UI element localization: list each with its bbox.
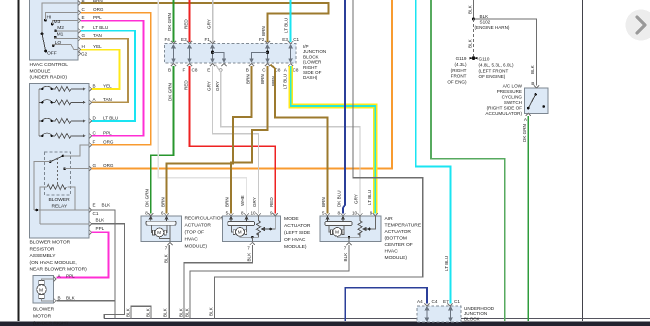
wire WHE from top to mode actuator pin 8: [158, 0, 246, 214]
svg-text:PPL: PPL: [93, 15, 102, 20]
HVAC pin C connector: [78, 10, 81, 15]
air temp bottom links: [337, 235, 349, 238]
blower motor box: [33, 276, 53, 304]
resistor row A with thermal limiter: [39, 100, 86, 105]
mode motor circle: [236, 228, 245, 237]
mode wiper node: [269, 228, 272, 231]
air temp position sensor resistor: [358, 221, 362, 235]
svg-text:OF HVAC: OF HVAC: [284, 237, 306, 243]
air temp wiper arm: [363, 228, 369, 231]
svg-text:MODULE): MODULE): [385, 255, 408, 261]
svg-text:E: E: [207, 68, 210, 73]
wire BLK relay to ground: [92, 224, 125, 319]
underhood junction block box: [417, 306, 461, 322]
HVAC pin G2 connector: [78, 51, 81, 56]
svg-text:BLK: BLK: [102, 203, 112, 208]
wire BLK mode to ground: [184, 245, 252, 318]
wire DK GRN JB B to recirculation actuator: [151, 66, 174, 214]
svg-text:BLK: BLK: [146, 307, 151, 317]
svg-text:(TOP OF: (TOP OF: [185, 230, 205, 236]
wire DK BLU compressor run: [345, 288, 427, 321]
svg-text:BRN: BRN: [160, 197, 165, 207]
svg-text:DASH): DASH): [303, 75, 318, 80]
wire GRY JB D to air temp actuator pin 10: [216, 65, 361, 214]
svg-text:(ON HVAC MODULE,: (ON HVAC MODULE,: [30, 260, 77, 266]
svg-text:TEMPERATURE: TEMPERATURE: [385, 223, 422, 229]
internal bus E3/C1-A: [289, 45, 292, 62]
recirc pin 8 internal arrow: [149, 216, 152, 221]
svg-text:7: 7: [247, 246, 250, 251]
mode sensor feed line: [258, 216, 260, 221]
switch contact top node: [534, 93, 537, 96]
wire ORG G long run to top: [92, 0, 393, 169]
svg-text:TAN: TAN: [93, 33, 102, 38]
svg-text:E: E: [93, 203, 96, 208]
blower motor resistor assembly box: [30, 83, 90, 238]
node on E line: [36, 209, 39, 212]
pin E bottom connector: [210, 64, 215, 67]
relay switch pivot: [49, 160, 52, 163]
internal bus F2-C: [266, 45, 269, 62]
svg-text:LT BLU: LT BLU: [93, 25, 108, 30]
air temp sensor feed line: [359, 216, 361, 221]
I/P junction block box: [165, 44, 297, 63]
svg-text:LT BLU: LT BLU: [284, 18, 289, 33]
air temp pin 8 internal arrow: [342, 216, 345, 222]
svg-text:DK BLU: DK BLU: [337, 190, 342, 207]
svg-text:B: B: [531, 81, 534, 86]
svg-text:MODULE: MODULE: [30, 68, 52, 74]
svg-text:6: 6: [161, 211, 164, 216]
svg-text:8: 8: [338, 211, 341, 216]
switch pin A connector: [526, 113, 531, 116]
mode pin 5 internal arrow: [230, 216, 233, 222]
pin D bottom connector: [221, 64, 226, 67]
svg-text:BRN: BRN: [260, 74, 265, 84]
motor pin A connector: [53, 276, 56, 281]
wire DK BLU from top to air temp actuator pin 8: [343, 0, 345, 214]
svg-text:C8: C8: [293, 68, 299, 73]
mode motor right brush: [245, 230, 247, 235]
air temp connector bar: [325, 222, 352, 226]
recirc pin 6 internal arrow: [165, 216, 168, 221]
svg-text:PPL: PPL: [66, 274, 75, 279]
underhood pin E7 connector: [447, 303, 452, 306]
recirc motor leads: [151, 225, 154, 232]
mode pin 7 lead: [251, 237, 253, 241]
svg-text:C8: C8: [192, 68, 198, 73]
M3 contact node and wire: [51, 23, 54, 26]
svg-text:MODULE): MODULE): [185, 244, 208, 250]
svg-text:BLK: BLK: [96, 218, 106, 223]
OFF contact node: [44, 50, 47, 53]
resistor row B with thermal limiter: [39, 86, 86, 91]
node on F2 bus: [266, 51, 269, 54]
air temp motor leads: [329, 226, 330, 232]
next-page circle button: [626, 10, 650, 41]
svg-text:DK GRN: DK GRN: [144, 189, 149, 207]
mode motor left brush: [233, 230, 235, 235]
svg-text:ORG: ORG: [103, 139, 114, 144]
svg-text:C1: C1: [293, 37, 299, 42]
resistor pin BLK connector: [89, 221, 92, 226]
HVAC control module box: [30, 0, 79, 60]
splice S102 node: [472, 18, 475, 21]
svg-text:H: H: [82, 44, 85, 49]
A/C low pressure cycling switch box: [525, 88, 549, 113]
HVAC pin B connector: [78, 0, 81, 5]
mode pin 9 internal lead: [271, 216, 276, 229]
svg-text:DK GRN: DK GRN: [167, 83, 172, 101]
resistor chain left bus: [38, 89, 40, 136]
motor lower brush: [39, 294, 45, 298]
resistor pin G connector: [89, 166, 92, 171]
svg-text:AIR: AIR: [385, 216, 394, 222]
svg-text:BRN: BRN: [245, 74, 250, 84]
svg-text:(LEFT FRONT: (LEFT FRONT: [479, 68, 509, 73]
wire DK GRN pressure switch to bottom: [527, 116, 529, 321]
ground bridge wire: [131, 306, 151, 319]
svg-text:BRN: BRN: [261, 26, 266, 36]
wire LT BLU feed from top: [290, 0, 292, 42]
svg-text:ACCUMULATOR): ACCUMULATOR): [485, 111, 522, 116]
relay coil: [47, 185, 66, 190]
motor pin B connector: [53, 298, 56, 303]
svg-text:HVAC: HVAC: [185, 237, 199, 243]
svg-text:E: E: [82, 15, 85, 20]
svg-text:5: 5: [322, 211, 325, 216]
HVAC pin F connector: [78, 28, 81, 33]
recirc motor left brush: [153, 230, 155, 235]
svg-text:10: 10: [251, 211, 257, 216]
mode pin 10 connector: [256, 213, 261, 216]
M1 contact node and wire: [54, 36, 57, 39]
svg-text:(UNDER RADIO): (UNDER RADIO): [30, 75, 68, 81]
wire LT GRN from top to bottom: [431, 0, 505, 321]
svg-text:MOTOR: MOTOR: [33, 314, 52, 320]
pin A/C8 bottom connector: [288, 64, 293, 67]
svg-text:BLK: BLK: [467, 38, 472, 48]
M2 contact node and wire: [54, 29, 57, 32]
svg-text:B: B: [246, 68, 249, 73]
svg-text:RED: RED: [183, 80, 188, 90]
pin E3/C1 top connector: [288, 41, 293, 44]
recirc connector bar: [146, 221, 176, 225]
svg-text:10: 10: [352, 211, 358, 216]
svg-text:7: 7: [344, 246, 347, 251]
svg-text:(LEFT SIDE: (LEFT SIDE: [284, 230, 311, 236]
svg-text:ORG: ORG: [93, 7, 104, 12]
svg-text:PPL: PPL: [96, 226, 105, 231]
svg-text:RESISTOR: RESISTOR: [30, 246, 55, 252]
svg-text:LT BLU: LT BLU: [444, 256, 449, 271]
svg-text:7: 7: [165, 246, 168, 251]
bottom dark bar: [0, 321, 650, 326]
svg-text:G119: G119: [456, 56, 467, 61]
resistor pin C connector: [89, 133, 92, 138]
svg-text:BLOWER MOTOR: BLOWER MOTOR: [30, 240, 71, 246]
svg-text:M: M: [335, 230, 339, 235]
svg-text:G110: G110: [479, 57, 490, 62]
svg-text:BLK: BLK: [208, 306, 213, 316]
relay contact lead to F pin: [63, 145, 89, 156]
svg-text:(4.3L): (4.3L): [454, 62, 466, 67]
svg-text:B: B: [168, 68, 171, 73]
air temp pin 9 connector: [373, 213, 378, 216]
svg-text:C1: C1: [454, 299, 460, 304]
relay coil right lead: [68, 187, 76, 210]
svg-text:F: F: [183, 68, 186, 73]
wire GRY JB E to mode actuator pin 10: [213, 66, 259, 214]
relay switch contact node: [62, 155, 65, 158]
svg-text:GRY: GRY: [206, 81, 211, 91]
resistor row D with thermal limiter: [39, 118, 86, 123]
svg-text:GRY: GRY: [215, 81, 220, 91]
svg-text:BLOWER: BLOWER: [49, 197, 71, 203]
air temp pin 5 internal arrow: [326, 216, 329, 222]
wire GRY feed from top: [212, 0, 214, 42]
LO contact node and wire: [52, 44, 55, 47]
svg-text:BLOWER: BLOWER: [33, 307, 55, 313]
wire BRN JB C8 to air temp actuator pin 5: [271, 65, 328, 214]
svg-text:(UNDER RIGHT: (UNDER RIGHT: [33, 321, 69, 326]
svg-text:TAN: TAN: [103, 97, 112, 102]
HVAC pin G connector: [78, 36, 81, 41]
svg-text:BRN: BRN: [225, 197, 230, 207]
blower switch arm: [42, 34, 46, 51]
HVAC pin H connector: [78, 47, 81, 52]
HVAC pin E connector: [78, 18, 81, 23]
wire YEL/LT BLU cyan core: [291, 66, 376, 214]
underhood internal bus A4: [425, 307, 428, 321]
wire BLK relay E to ground: [92, 210, 116, 318]
air temp wiper node: [368, 228, 371, 231]
svg-text:SWITCH: SWITCH: [504, 100, 522, 105]
page right border: [582, 0, 584, 321]
air temp pin 10 connector: [357, 213, 362, 216]
resistor pin A connector: [89, 100, 92, 105]
air temp actuator box: [320, 216, 381, 242]
pin E3 top connector: [187, 41, 192, 44]
svg-text:9: 9: [370, 211, 373, 216]
svg-text:RED: RED: [183, 19, 188, 29]
mode pin 9 connector: [273, 213, 278, 216]
svg-text:E7: E7: [443, 299, 449, 304]
svg-text:MODULE): MODULE): [284, 244, 307, 250]
svg-text:(BOTTOM: (BOTTOM: [385, 236, 407, 242]
underhood internal bus E7: [449, 307, 452, 321]
mode pin 5 connector: [228, 213, 233, 216]
wire PPL HVAC E to resistor C: [81, 21, 144, 136]
svg-text:LT BLU: LT BLU: [103, 116, 118, 121]
mode bottom junction node: [251, 236, 254, 239]
svg-text:NEAR BLOWER MOTOR): NEAR BLOWER MOTOR): [30, 267, 88, 273]
wire BLK engine harness from top: [473, 0, 475, 19]
svg-text:GRY: GRY: [353, 194, 358, 204]
pin F2 top connector: [265, 41, 270, 44]
svg-text:C4: C4: [432, 299, 438, 304]
air temp motor left brush: [331, 230, 333, 235]
recirc motor right brush: [164, 230, 166, 235]
wire BLK air temp to ground: [190, 245, 349, 318]
svg-text:OF ENGINE): OF ENGINE): [479, 74, 506, 79]
switch pin B connector: [534, 85, 539, 88]
svg-text:FRONT: FRONT: [451, 74, 467, 79]
svg-text:C1: C1: [93, 211, 99, 216]
pin B bottom connector: [171, 64, 176, 67]
recirc pin 7 connector: [167, 242, 172, 245]
svg-text:M1: M1: [57, 31, 64, 37]
svg-text:S102: S102: [480, 20, 491, 25]
wire PPL relay to blower motor: [57, 232, 109, 277]
wire ORG HVAC C to resistor F: [81, 13, 151, 145]
mode wiper arm: [262, 228, 271, 231]
wire RED JB F to mode actuator: [190, 66, 276, 214]
svg-text:LT BLU: LT BLU: [367, 190, 372, 205]
resistor pin B connector: [89, 86, 92, 91]
switch arm: [528, 95, 535, 109]
svg-text:BLK: BLK: [162, 307, 167, 317]
svg-text:(ENGINE HARN): (ENGINE HARN): [475, 25, 510, 30]
HI contact node and wire: [44, 19, 47, 22]
svg-text:B: B: [58, 295, 61, 300]
svg-text:LT BLU: LT BLU: [282, 74, 287, 89]
resistor pin E connector: [89, 207, 92, 212]
mode pin 8 connector: [244, 213, 249, 216]
svg-text:E3: E3: [282, 37, 288, 42]
next-page chevron icon: [637, 17, 645, 33]
recirc motor circle: [155, 228, 164, 237]
wire BLK splice to grounds: [473, 19, 475, 57]
svg-text:9: 9: [270, 211, 273, 216]
relay coil left lead: [40, 187, 47, 224]
svg-text:A4: A4: [417, 299, 423, 304]
wire RED feed from top: [189, 0, 191, 42]
svg-text:HVAC CONTROL: HVAC CONTROL: [30, 62, 69, 68]
pin F1 top connector: [210, 41, 215, 44]
svg-text:M: M: [39, 288, 43, 294]
air temp pin 7 connector: [346, 242, 351, 245]
recirc pin 6 connector: [164, 213, 169, 216]
svg-text:BLK: BLK: [343, 252, 348, 262]
wire BLK from top to ground bus: [215, 0, 423, 318]
svg-text:RED: RED: [269, 197, 274, 207]
svg-text:ORG: ORG: [103, 163, 114, 168]
internal BLK line: [40, 223, 89, 225]
svg-text:BLK: BLK: [163, 253, 168, 263]
internal bus F1-E: [211, 45, 214, 62]
svg-text:F: F: [93, 139, 96, 144]
svg-text:A/C LOW: A/C LOW: [503, 84, 523, 89]
svg-text:OF ENG): OF ENG): [447, 79, 467, 84]
svg-text:ACTUATOR: ACTUATOR: [185, 223, 212, 229]
svg-text:F: F: [82, 25, 85, 30]
svg-text:(RIGHT: (RIGHT: [451, 68, 467, 73]
svg-text:G: G: [93, 163, 97, 168]
mode bottom links: [240, 235, 252, 238]
svg-text:(RIGHT SIDE OF: (RIGHT SIDE OF: [487, 106, 523, 111]
air temp pin 5 connector: [325, 213, 330, 216]
wire BRN HVAC B to junction block F2: [81, 3, 329, 42]
underhood pin A4 connector: [424, 303, 429, 306]
air temp motor right brush: [342, 230, 344, 235]
svg-text:M: M: [157, 230, 161, 235]
svg-text:BLK: BLK: [246, 252, 251, 262]
ground bus line: [104, 317, 650, 319]
svg-text:HVAC: HVAC: [385, 249, 399, 255]
svg-text:GRY: GRY: [206, 19, 211, 29]
internal bus E3-F: [188, 45, 191, 62]
svg-text:ACTUATOR: ACTUATOR: [385, 229, 412, 235]
svg-text:YEL: YEL: [93, 44, 102, 49]
svg-text:CENTER OF: CENTER OF: [385, 242, 413, 248]
wire LT BLU from top to underhood junction block: [416, 0, 451, 304]
branch to pin D: [213, 52, 226, 62]
blower relay box: [45, 152, 71, 195]
resistor pin D connector: [89, 118, 92, 123]
wire BLK splice to pressure switch: [474, 19, 537, 86]
air temp bottom junction node: [348, 236, 351, 239]
svg-text:(4.8L, 5.3L, 6.0L): (4.8L, 5.3L, 6.0L): [479, 63, 514, 68]
mode actuator box: [223, 216, 281, 242]
svg-text:8: 8: [145, 211, 148, 216]
page left border: [18, 0, 20, 321]
svg-text:MODE: MODE: [284, 216, 299, 222]
svg-text:B: B: [93, 84, 96, 89]
recirc pin 7 lead: [169, 225, 171, 241]
internal E BLK line: [34, 209, 89, 211]
svg-text:DK GRN: DK GRN: [167, 13, 172, 31]
pin C bottom connector: [265, 64, 270, 67]
resistor pin F connector: [89, 142, 92, 147]
mode pin 7 connector: [250, 242, 255, 245]
svg-text:HI: HI: [47, 14, 52, 20]
mode motor leads: [232, 226, 233, 232]
node on F1 bus: [211, 51, 214, 54]
recirc bottom link: [159, 237, 170, 239]
switch side node: [542, 105, 545, 108]
svg-text:YEL: YEL: [103, 84, 112, 89]
wire LT BLU HVAC F to resistor D: [81, 31, 135, 121]
svg-text:GRY: GRY: [252, 197, 257, 207]
mode position sensor resistor: [257, 221, 261, 235]
relay middle contact lead to G pin: [65, 168, 89, 170]
switch bottom node: [527, 107, 530, 110]
relay armature dashed link: [57, 158, 59, 184]
svg-text:5: 5: [226, 211, 229, 216]
svg-text:ACTUATOR: ACTUATOR: [284, 223, 311, 229]
svg-text:M3: M3: [54, 19, 61, 25]
branch to pin B: [250, 52, 268, 62]
svg-text:PRESSURE: PRESSURE: [497, 89, 522, 94]
air temp pin 8 connector: [340, 213, 345, 216]
relay common lead to left wall: [34, 162, 50, 210]
svg-text:G: G: [82, 33, 86, 38]
resistor row C with thermal limiter: [39, 133, 86, 138]
svg-text:M2: M2: [57, 25, 64, 31]
svg-text:F4: F4: [165, 37, 171, 42]
wire BRN JB C to mode actuator pin 5: [231, 66, 268, 214]
mode connector bar: [228, 222, 255, 226]
svg-text:WHE: WHE: [240, 195, 245, 206]
svg-text:E3: E3: [181, 37, 187, 42]
motor upper brush: [39, 281, 45, 285]
svg-text:BLK: BLK: [178, 307, 183, 317]
svg-text:BLK: BLK: [126, 307, 131, 317]
svg-text:BLK: BLK: [467, 4, 472, 14]
svg-text:RELAY: RELAY: [52, 204, 68, 210]
wire YEL HVAC H to resistor B: [81, 50, 119, 89]
